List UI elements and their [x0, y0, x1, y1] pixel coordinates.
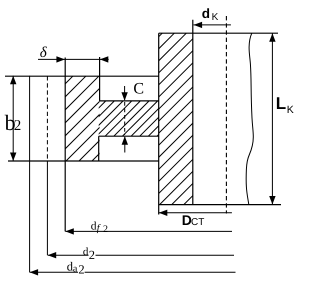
tongue top edge — [100, 100, 159, 102]
rim bottom edge — [8, 160, 159, 162]
dimension D_CT line — [159, 212, 232, 214]
dimension C lower arrow — [124, 137, 126, 153]
svg-text:K: K — [287, 104, 294, 116]
hub left edge / D_CT extension — [158, 33, 160, 214]
hatching: gear rim section — [0, 76, 177, 161]
svg-text:C: C — [133, 81, 144, 98]
dimension d_f2 line — [65, 230, 232, 232]
white gap for d_a2 subscript — [78, 265, 85, 274]
wheel axis centerline (dashed) — [225, 16, 227, 214]
C dimension dashed connector through tongue — [124, 102, 126, 135]
rim top edge — [5, 75, 159, 77]
d_2 extension line (solid part) — [46, 161, 48, 255]
svg-text:a: a — [73, 264, 78, 275]
dimension d_2 line — [48, 254, 234, 256]
dimension delta line — [38, 58, 109, 60]
svg-text:d: d — [202, 6, 210, 21]
dimension L_K line — [271, 33, 273, 204]
hatching: hub block section — [0, 33, 320, 204]
svg-text:CT: CT — [191, 217, 204, 228]
wavy break line — [246, 33, 253, 204]
hub bottom edge / L_K extension — [159, 204, 281, 206]
lower notch wall — [98, 136, 100, 161]
dimension b2 line — [12, 76, 14, 161]
svg-text:2: 2 — [103, 224, 108, 235]
white gap for d_2 subscript — [89, 250, 96, 259]
pitch line (dashed) of gear teeth — [46, 76, 48, 161]
svg-text:2: 2 — [78, 263, 84, 277]
rim left edge / d_f2 extension — [64, 58, 66, 232]
dimension C upper arrow — [124, 86, 126, 100]
upper notch wall / delta extension — [99, 57, 101, 101]
dimension d_K line — [194, 24, 231, 26]
svg-text:2: 2 — [89, 248, 95, 262]
hatching: tongue / disc joint section — [71, 101, 193, 136]
svg-text:2: 2 — [14, 118, 21, 134]
hub bore wall / d_K extension — [192, 20, 194, 205]
svg-text:L: L — [276, 94, 286, 113]
hub top edge / L_K extension — [159, 32, 278, 34]
svg-text:K: K — [212, 12, 219, 23]
svg-text:δ: δ — [40, 45, 48, 61]
tongue bottom edge — [99, 135, 159, 137]
d_a2 extension line — [29, 76, 31, 273]
dimension d_a2 line — [30, 271, 236, 273]
